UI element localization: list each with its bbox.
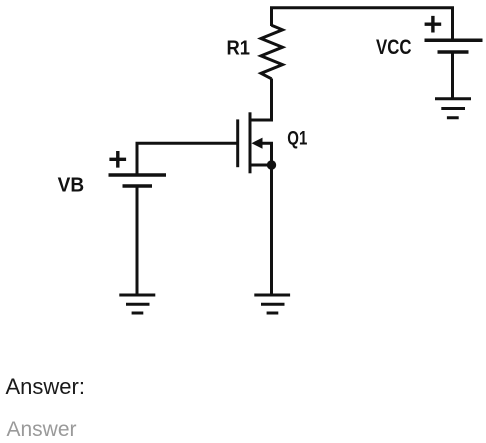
transistor Q1 gate plate (236, 119, 239, 167)
svg-text:VB: VB (58, 173, 85, 196)
battery VCC plus sign (425, 16, 442, 33)
wire gate to VB + terminal (137, 143, 238, 175)
wire top rail (R1 top to VCC +) (272, 8, 453, 41)
transistor Q1 body lead with arrow (260, 143, 272, 165)
battery VCC negative plate (438, 50, 469, 54)
battery VB plus sign (109, 151, 126, 168)
svg-text:R1: R1 (226, 36, 250, 59)
wire VB - to ground (136, 186, 139, 295)
wire VCC - to ground (451, 52, 454, 99)
battery VB positive plate (109, 173, 167, 177)
transistor Q1 drain lead (250, 119, 272, 122)
resistor R1 (261, 25, 283, 79)
ground (source) (254, 295, 290, 313)
battery VCC positive plate (425, 39, 483, 43)
svg-text:VCC: VCC (376, 36, 412, 59)
ground (VB) (119, 295, 155, 313)
transistor Q1 source lead (250, 164, 272, 167)
junction dot (body-source tie) (267, 160, 276, 169)
wire source to ground (270, 165, 273, 295)
text Answer placeholder (7, 418, 77, 442)
wire R1 bottom to drain (270, 79, 273, 122)
text Answer: (6, 374, 85, 400)
ground (VCC) (435, 99, 471, 118)
svg-text:Q1: Q1 (287, 128, 307, 149)
battery VB negative plate (123, 184, 153, 188)
transistor Q1 channel bar (249, 112, 252, 173)
